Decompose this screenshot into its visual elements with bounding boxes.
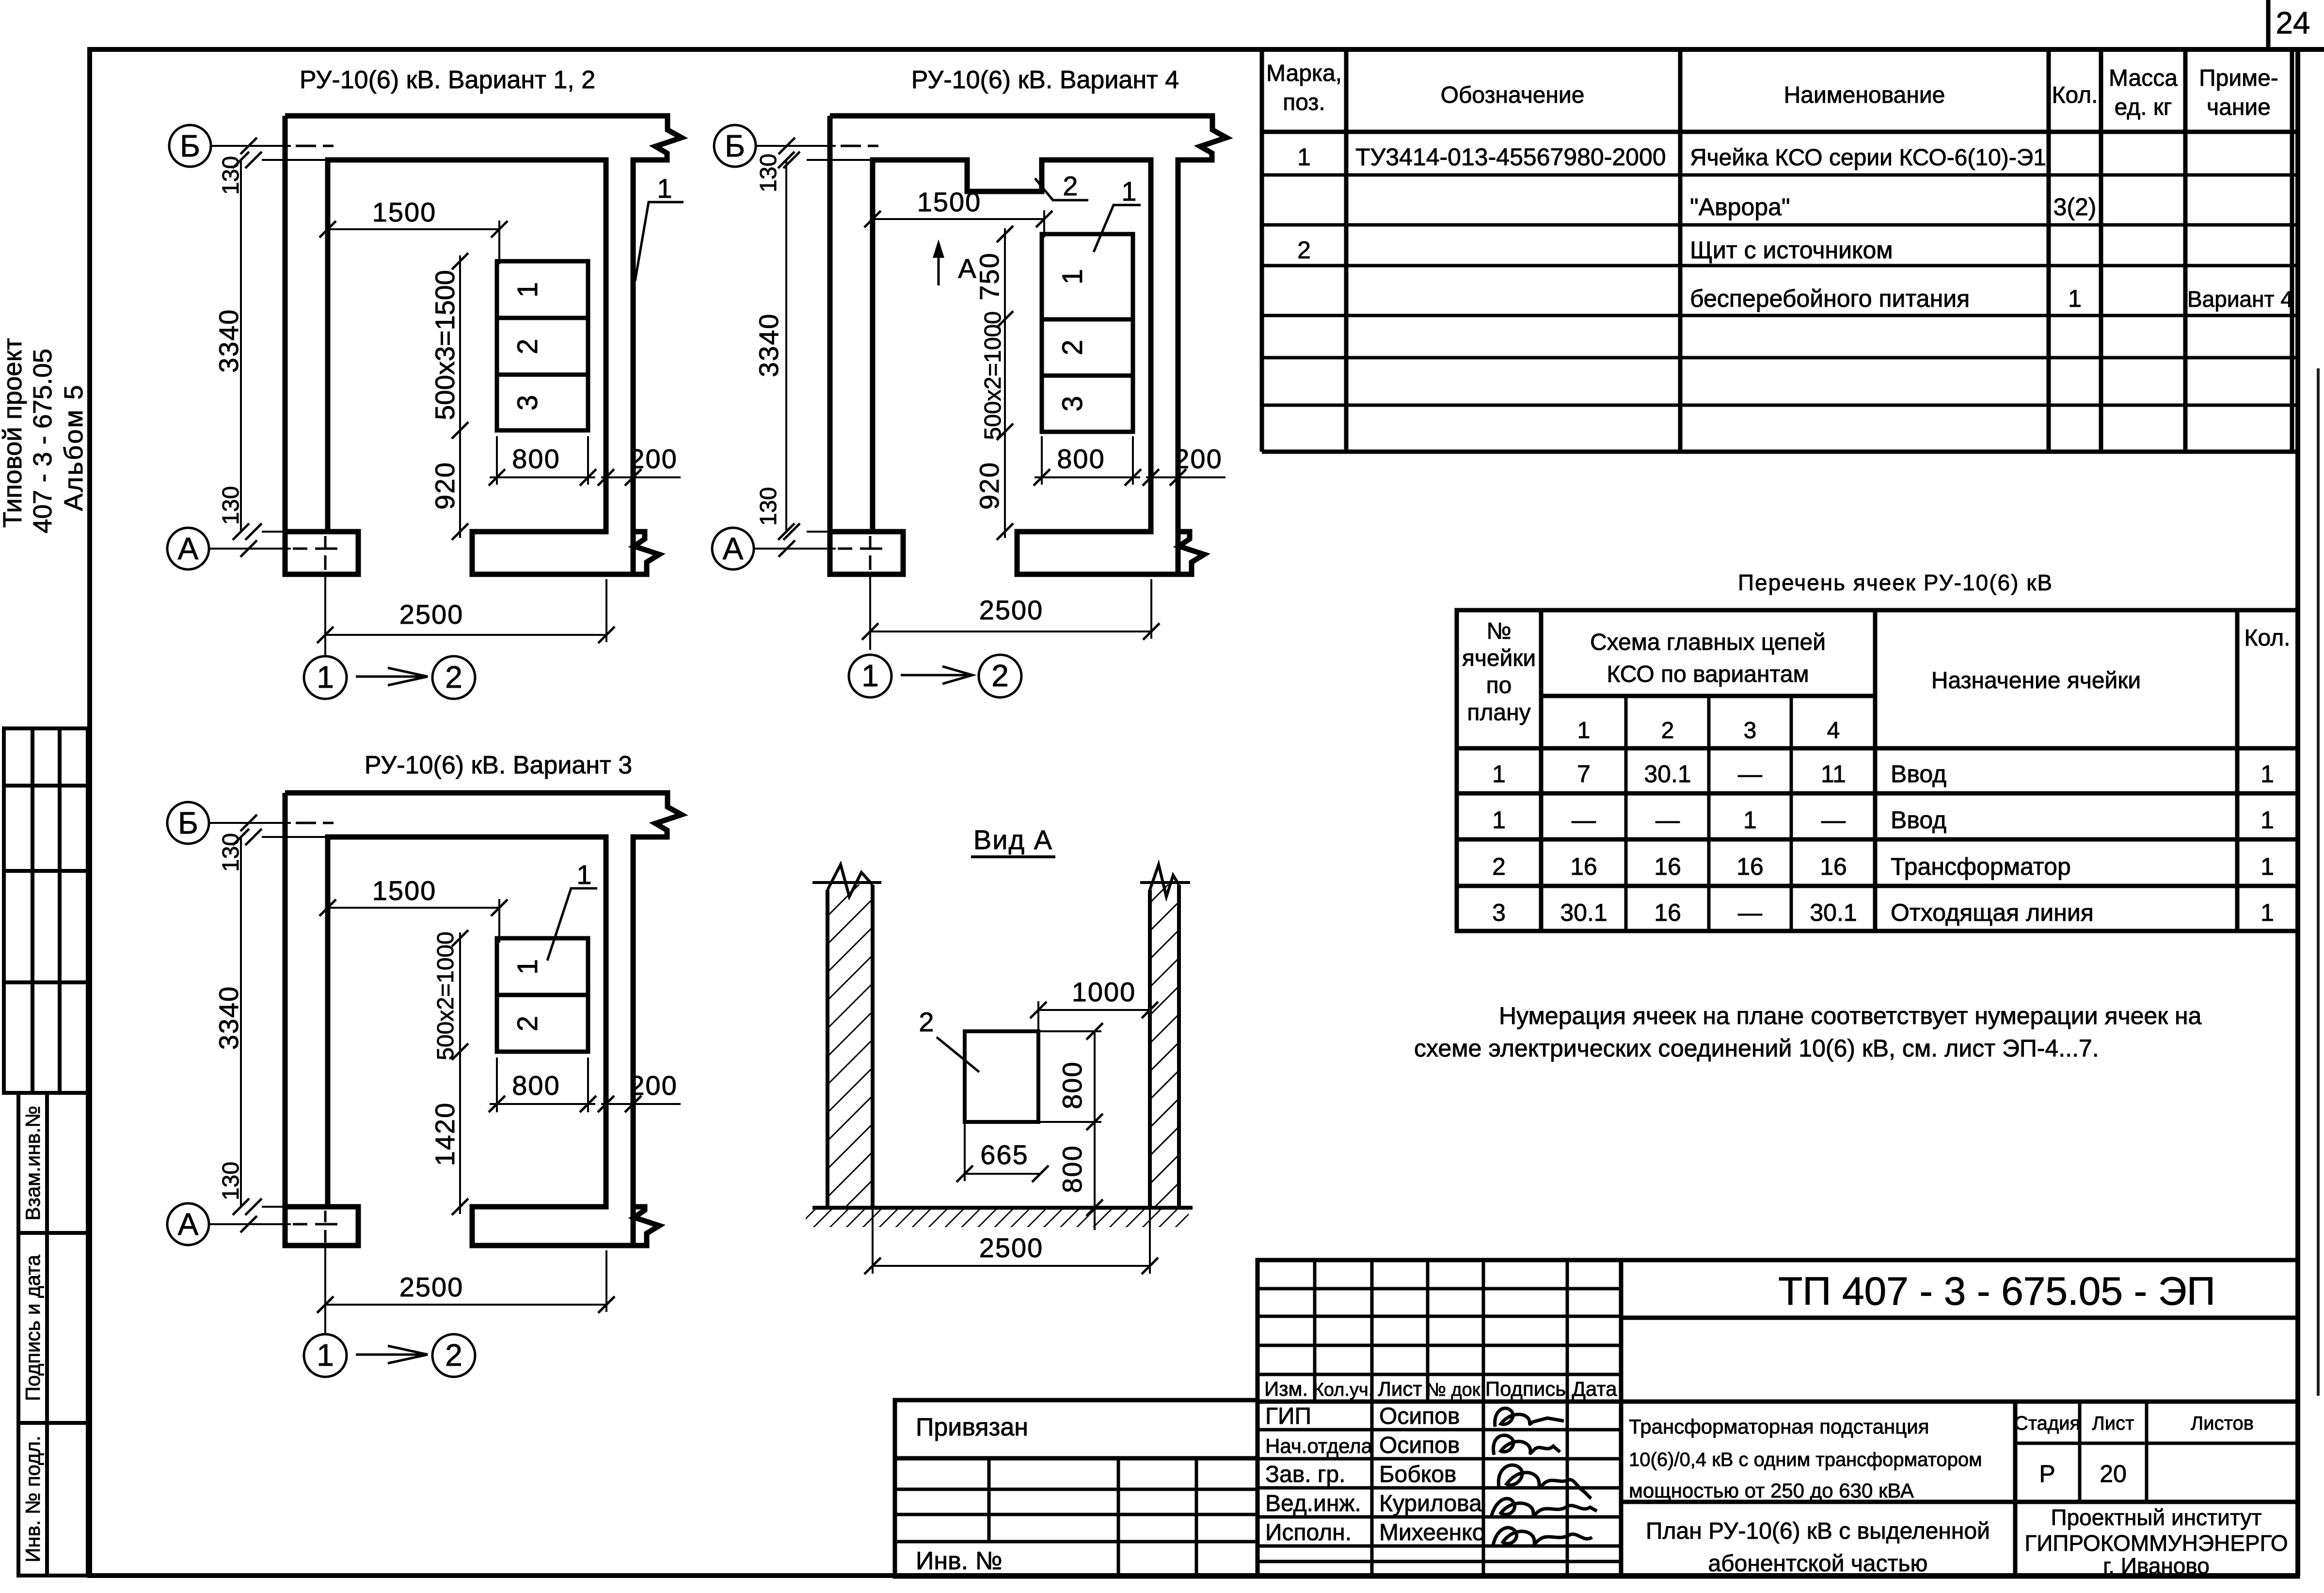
title block left grid lines bbox=[1258, 1260, 1621, 1577]
plan 3 dim 800 bbox=[490, 1103, 595, 1105]
svg-text:1: 1 bbox=[1297, 143, 1311, 171]
svg-text:Зав. гр.: Зав. гр. bbox=[1265, 1462, 1345, 1487]
svg-text:3340: 3340 bbox=[213, 986, 244, 1050]
svg-text:16: 16 bbox=[1570, 853, 1597, 880]
plan 3 axis circle А bbox=[167, 1203, 209, 1245]
svg-text:Отходящая линия: Отходящая линия bbox=[1891, 899, 2094, 926]
svg-text:РУ-10(6) кВ. Вариант 3: РУ-10(6) кВ. Вариант 3 bbox=[365, 751, 632, 779]
svg-text:130: 130 bbox=[756, 154, 781, 192]
plan 4 view mark circle 1 bbox=[849, 655, 891, 697]
svg-text:2: 2 bbox=[445, 1338, 462, 1372]
svg-text:1500: 1500 bbox=[372, 875, 437, 906]
plan 4 dim 750 bbox=[1004, 228, 1006, 439]
view A right wall column outline bbox=[1148, 890, 1152, 1208]
svg-text:А: А bbox=[178, 531, 199, 566]
svg-text:7: 7 bbox=[1577, 760, 1591, 788]
plan 1 dim 920 bbox=[459, 436, 461, 538]
svg-text:2500: 2500 bbox=[979, 595, 1044, 625]
svg-text:Подпись и дата: Подпись и дата bbox=[21, 1254, 44, 1401]
svg-text:РУ-10(6) кВ. Вариант 4: РУ-10(6) кВ. Вариант 4 bbox=[911, 66, 1179, 94]
view A ground line bbox=[812, 1206, 1193, 1210]
svg-text:130: 130 bbox=[218, 486, 244, 525]
svg-text:4: 4 bbox=[1827, 718, 1840, 743]
view A leader 2 bbox=[937, 1037, 979, 1072]
svg-text:200: 200 bbox=[629, 443, 677, 474]
svg-text:Курилова: Курилова bbox=[1379, 1491, 1482, 1516]
plan 1 axis dashes in pier bbox=[293, 536, 337, 570]
view A right wall column hatch bbox=[1152, 884, 1177, 1206]
plan 3 dim 2500 bbox=[325, 1304, 606, 1306]
plan 3 axis line А bbox=[209, 1223, 291, 1225]
svg-text:Вид А: Вид А bbox=[973, 824, 1053, 855]
plan 1 view mark circle 2 bbox=[432, 656, 475, 699]
frame right line bbox=[2295, 49, 2300, 1576]
svg-text:А: А bbox=[723, 531, 744, 566]
svg-text:3340: 3340 bbox=[213, 309, 244, 373]
plan 4 axis line Б bbox=[756, 145, 836, 147]
svg-text:3: 3 bbox=[512, 395, 543, 410]
svg-text:2: 2 bbox=[512, 1016, 543, 1031]
svg-text:2500: 2500 bbox=[979, 1232, 1044, 1263]
svg-text:200: 200 bbox=[629, 1070, 677, 1101]
svg-text:ТУ3414-013-45567980-2000: ТУ3414-013-45567980-2000 bbox=[1355, 143, 1666, 171]
binding block border bbox=[895, 1400, 1258, 1577]
cells list table grid bbox=[1457, 610, 2298, 931]
svg-text:Вед.инж.: Вед.инж. bbox=[1265, 1491, 1361, 1516]
plan 4 axis circle Б bbox=[714, 125, 756, 167]
plan 1 dim 3340 bbox=[240, 160, 242, 532]
svg-text:1: 1 bbox=[657, 173, 673, 204]
plan 3 walls bbox=[285, 793, 682, 1246]
svg-text:2500: 2500 bbox=[399, 599, 464, 630]
svg-text:поз.: поз. bbox=[1283, 90, 1325, 115]
frame left line bbox=[87, 47, 92, 1577]
view A left wall column outline bbox=[826, 890, 829, 1208]
svg-text:500х3=1500: 500х3=1500 bbox=[430, 270, 460, 420]
svg-text:Осипов: Осипов bbox=[1379, 1433, 1460, 1458]
svg-text:Типовой проект: Типовой проект bbox=[0, 338, 27, 528]
plan 1 walls bbox=[285, 116, 682, 574]
svg-text:24: 24 bbox=[2276, 5, 2310, 40]
view A section bbox=[806, 824, 1193, 1274]
svg-text:130: 130 bbox=[756, 487, 781, 526]
svg-text:Дата: Дата bbox=[1572, 1377, 1617, 1400]
binding block grid bbox=[895, 1458, 1258, 1577]
plan 4 walls bbox=[830, 116, 1226, 574]
svg-text:10(6)/0,4 кВ с одним трансформ: 10(6)/0,4 кВ с одним трансформатором bbox=[1629, 1449, 1982, 1470]
svg-text:1: 1 bbox=[2260, 760, 2274, 788]
svg-text:—: — bbox=[1821, 806, 1846, 834]
svg-text:мощностью от 250 до 630 кВА: мощностью от 250 до 630 кВА bbox=[1629, 1479, 1914, 1502]
svg-text:407 - 3 - 675.05: 407 - 3 - 675.05 bbox=[28, 348, 57, 533]
view A dim 2500 bbox=[873, 1265, 1150, 1267]
svg-text:1: 1 bbox=[512, 959, 543, 975]
svg-text:2: 2 bbox=[991, 658, 1009, 693]
svg-text:1000: 1000 bbox=[1072, 977, 1136, 1007]
plan 1 axis dashes in top wall bbox=[296, 145, 334, 147]
svg-text:Схема главных цепей: Схема главных цепей bbox=[1590, 630, 1826, 655]
svg-text:800: 800 bbox=[1057, 1061, 1087, 1109]
svg-text:ед. кг: ед. кг bbox=[2115, 95, 2172, 120]
svg-text:2: 2 bbox=[1297, 237, 1311, 264]
svg-text:1: 1 bbox=[1577, 718, 1591, 743]
plan 3 view direction arrow bbox=[356, 1354, 425, 1356]
svg-text:№ док.: № док. bbox=[1426, 1380, 1485, 1400]
signature Вед.инж. bbox=[1491, 1498, 1597, 1517]
svg-text:Кол.: Кол. bbox=[2052, 82, 2098, 108]
plan 1 tick slashes near Б bbox=[240, 138, 257, 154]
svg-text:1420: 1420 bbox=[430, 1102, 460, 1167]
svg-text:Б: Б bbox=[725, 128, 745, 163]
svg-text:30.1: 30.1 bbox=[1810, 899, 1857, 926]
plan 4 dim 1500 bbox=[873, 218, 1044, 220]
svg-text:Нумерация ячеек на плане соотв: Нумерация ячеек на плане соответствует н… bbox=[1499, 1002, 2202, 1029]
plan 4 dim 920 bbox=[1004, 439, 1006, 538]
svg-text:Лист: Лист bbox=[1378, 1377, 1422, 1400]
svg-text:Трансформаторная подстанция: Трансформаторная подстанция bbox=[1629, 1415, 1929, 1438]
svg-text:Инв. №: Инв. № bbox=[916, 1547, 1002, 1575]
svg-text:1: 1 bbox=[317, 660, 334, 694]
svg-text:665: 665 bbox=[980, 1139, 1028, 1170]
svg-text:2: 2 bbox=[1063, 171, 1079, 201]
svg-text:Альбом 5: Альбом 5 bbox=[59, 384, 88, 511]
svg-text:1: 1 bbox=[1492, 760, 1506, 788]
svg-text:Исполн.: Исполн. bbox=[1265, 1520, 1352, 1546]
left margin box Взам.инв.№ bbox=[18, 1093, 88, 1233]
svg-text:чание: чание bbox=[2207, 95, 2271, 120]
svg-text:КСО по вариантам: КСО по вариантам bbox=[1607, 662, 1809, 687]
plan 4 dim 500x2=1000 bbox=[997, 424, 1013, 440]
svg-text:1: 1 bbox=[2260, 853, 2274, 880]
svg-text:Обозначение: Обозначение bbox=[1441, 82, 1585, 108]
title block outer border bbox=[1258, 1260, 2298, 1577]
svg-text:1: 1 bbox=[1492, 806, 1506, 834]
plan 4 dim 2500 bbox=[870, 631, 1151, 632]
svg-text:1: 1 bbox=[317, 1338, 334, 1372]
plan 1 axis circle А bbox=[167, 528, 209, 569]
plan 1 view direction arrow bbox=[356, 676, 425, 678]
signature Зав. гр. bbox=[1498, 1465, 1591, 1498]
svg-text:Михеенко: Михеенко bbox=[1379, 1520, 1485, 1546]
svg-text:16: 16 bbox=[1654, 899, 1681, 926]
svg-text:Подпись: Подпись bbox=[1485, 1377, 1566, 1400]
svg-text:1: 1 bbox=[861, 658, 879, 693]
svg-text:920: 920 bbox=[974, 461, 1004, 509]
svg-text:Ввод: Ввод bbox=[1891, 806, 1946, 834]
svg-text:800: 800 bbox=[1057, 1145, 1087, 1193]
svg-text:30.1: 30.1 bbox=[1560, 899, 1607, 926]
svg-text:ТП 407 - 3 - 675.05 - ЭП: ТП 407 - 3 - 675.05 - ЭП bbox=[1778, 1269, 2215, 1313]
svg-text:800: 800 bbox=[512, 1070, 560, 1101]
svg-text:—: — bbox=[1655, 806, 1680, 834]
svg-text:1: 1 bbox=[1743, 806, 1757, 834]
plan 1 wall face extension near А bbox=[262, 531, 286, 533]
svg-text:16: 16 bbox=[1820, 853, 1847, 880]
svg-text:ГИП: ГИП bbox=[1265, 1404, 1311, 1429]
frame top line bbox=[89, 47, 2324, 52]
left margin approval grid bbox=[4, 728, 88, 1093]
svg-text:2500: 2500 bbox=[399, 1272, 464, 1302]
svg-text:800: 800 bbox=[1057, 443, 1105, 474]
svg-text:2: 2 bbox=[445, 660, 462, 694]
svg-text:3(2): 3(2) bbox=[2053, 193, 2097, 221]
plan 3 axis dashes in pier bbox=[293, 1211, 337, 1243]
svg-text:Проектный институт: Проектный институт bbox=[2051, 1505, 2262, 1530]
plan 1 cells cabinet item 1 bbox=[497, 261, 588, 430]
signature ГИП bbox=[1495, 1408, 1564, 1427]
plan 1 view mark circle 1 bbox=[304, 656, 347, 699]
svg-text:11: 11 bbox=[1821, 760, 1846, 788]
svg-text:3: 3 bbox=[1744, 718, 1757, 743]
view A left wall column hatch bbox=[829, 884, 871, 1206]
svg-text:1: 1 bbox=[2260, 806, 2274, 834]
plan 4 view direction arrow bbox=[901, 674, 971, 677]
plan 3 wall face extension near А bbox=[262, 1206, 286, 1208]
svg-text:А: А bbox=[178, 1207, 199, 1242]
svg-text:1500: 1500 bbox=[917, 187, 982, 217]
plan 3 tick slashes near А bbox=[240, 1216, 257, 1232]
svg-text:Щит с источником: Щит с источником bbox=[1690, 237, 1893, 264]
spec table grid bbox=[1262, 49, 2298, 452]
svg-text:30.1: 30.1 bbox=[1644, 760, 1691, 788]
cells list table bbox=[1457, 570, 2298, 931]
view A right column top break bbox=[1150, 865, 1179, 897]
svg-text:1500: 1500 bbox=[372, 197, 437, 227]
plan 3 axis dashes in top wall bbox=[296, 822, 334, 824]
plan 3 dim 500x2=1000 bbox=[459, 932, 461, 1057]
svg-text:20: 20 bbox=[2100, 1460, 2127, 1487]
plan 4 position leader 1 bbox=[1094, 205, 1141, 252]
plan 4 cells cabinet item 1 bbox=[1042, 234, 1133, 432]
plan 3 dim 3340 bbox=[240, 837, 242, 1207]
view A title underline bbox=[971, 855, 1055, 858]
svg-text:2: 2 bbox=[1492, 853, 1506, 880]
svg-text:Трансформатор: Трансформатор bbox=[1891, 853, 2071, 880]
plan 3 position leader 1 bbox=[547, 888, 597, 961]
svg-text:абонентской частью: абонентской частью bbox=[1708, 1551, 1927, 1577]
plan 4 tick slashes near А bbox=[779, 540, 795, 557]
signature Исполн. bbox=[1493, 1528, 1592, 1545]
svg-text:500х2=1000: 500х2=1000 bbox=[980, 311, 1006, 440]
plan 4 ups panel leader 2 bbox=[1035, 178, 1088, 200]
sheet edge line right bbox=[2317, 368, 2320, 1396]
svg-text:Марка,: Марка, bbox=[1266, 61, 1342, 86]
plan 1 dim 200 bbox=[601, 476, 681, 478]
view A vertical dim chain 800/800 bbox=[1094, 1031, 1096, 1230]
svg-text:Ввод: Ввод bbox=[1891, 760, 1946, 788]
svg-text:Лист: Лист bbox=[2092, 1413, 2134, 1434]
plan 4 wall face extension near А bbox=[807, 531, 831, 533]
svg-text:500х2=1000: 500х2=1000 bbox=[433, 931, 459, 1060]
note paragraph bbox=[1414, 1002, 2202, 1062]
svg-text:—: — bbox=[1738, 899, 1762, 926]
plan 4 dim 800 bbox=[1035, 476, 1140, 478]
plan 1 axis line Б bbox=[211, 145, 291, 147]
plan 3 dim 1420 bbox=[459, 1057, 461, 1214]
svg-text:Перечень ячеек РУ-10(6) кВ: Перечень ячеек РУ-10(6) кВ bbox=[1738, 570, 2053, 595]
left margin box Подпись и дата bbox=[18, 1233, 88, 1423]
frame bottom line bbox=[87, 1573, 2298, 1578]
svg-text:плану: плану bbox=[1467, 700, 1530, 726]
svg-text:2: 2 bbox=[1661, 718, 1674, 743]
svg-text:3: 3 bbox=[1492, 899, 1506, 926]
svg-text:130: 130 bbox=[218, 1162, 244, 1200]
svg-text:Нач.отдела: Нач.отдела bbox=[1265, 1435, 1373, 1457]
plan 3 dim 1500 bbox=[328, 907, 499, 909]
svg-text:1: 1 bbox=[2260, 899, 2274, 926]
plan 4 axis dashes in top wall bbox=[841, 145, 878, 147]
svg-text:бесперебойного питания: бесперебойного питания bbox=[1690, 285, 1970, 312]
plan 3 view mark circle 1 bbox=[304, 1334, 347, 1377]
svg-text:схеме электрических соединений: схеме электрических соединений 10(6) кВ,… bbox=[1414, 1035, 2099, 1062]
plan 4 dim 200 bbox=[1146, 476, 1226, 478]
svg-text:Б: Б bbox=[178, 805, 198, 840]
svg-text:1: 1 bbox=[2068, 285, 2082, 312]
page number divider line bbox=[2266, 0, 2271, 50]
plan 1 position leader 1 bbox=[635, 202, 684, 281]
svg-text:Изм.: Изм. bbox=[1264, 1377, 1308, 1400]
specification table bbox=[1262, 49, 2298, 452]
svg-text:Б: Б bbox=[180, 128, 200, 163]
plan 4 axis dashes in pier bbox=[838, 536, 882, 570]
plan 4 axis line А bbox=[754, 548, 836, 550]
svg-text:Наименование: Наименование bbox=[1784, 82, 1945, 108]
vertical sheet title: Типовой проект 407-3-675.05 Альбом 5 bbox=[0, 338, 88, 533]
svg-text:2: 2 bbox=[919, 1007, 935, 1037]
stage grid bbox=[2015, 1402, 2298, 1502]
svg-text:200: 200 bbox=[1174, 443, 1222, 474]
svg-text:Кол.уч.: Кол.уч. bbox=[1313, 1380, 1374, 1400]
plan 1 tick slashes near А bbox=[240, 540, 257, 557]
view A dim 665 bbox=[965, 1173, 1040, 1175]
svg-text:920: 920 bbox=[430, 461, 460, 509]
svg-text:1: 1 bbox=[1121, 176, 1137, 206]
view A left column top tick bbox=[812, 881, 881, 884]
svg-text:Назначение ячейки: Назначение ячейки bbox=[1931, 668, 2141, 694]
plan 1 axis circle Б bbox=[169, 125, 211, 167]
svg-text:Стадия: Стадия bbox=[2014, 1413, 2080, 1434]
plan 3 cells cabinet item 1 bbox=[497, 938, 588, 1052]
svg-text:ГИПРОКОММУНЭНЕРГО: ГИПРОКОММУНЭНЕРГО bbox=[2024, 1530, 2288, 1556]
plan 3 dim 200 bbox=[601, 1103, 681, 1105]
view A dim 1000 bbox=[1038, 1009, 1150, 1011]
svg-text:800: 800 bbox=[512, 443, 560, 474]
svg-text:Взам.инв.№: Взам.инв.№ bbox=[21, 1106, 44, 1221]
plan 3 wall face extension near Б bbox=[262, 836, 328, 838]
svg-text:Масса: Масса bbox=[2109, 65, 2178, 91]
svg-text:Осипов: Осипов bbox=[1379, 1404, 1460, 1429]
plan variant 3 bbox=[167, 751, 682, 1377]
view A ground hatch bbox=[806, 1210, 1189, 1227]
svg-text:"Аврора": "Аврора" bbox=[1690, 193, 1790, 221]
plan 1 dim 500x3=1500 bbox=[459, 255, 461, 436]
title block bbox=[895, 1260, 2298, 1578]
svg-text:Ячейка КСО серии КСО-6(10)-Э1: Ячейка КСО серии КСО-6(10)-Э1 bbox=[1690, 145, 2046, 171]
plan 3 view mark circle 2 bbox=[432, 1334, 475, 1377]
svg-text:Р: Р bbox=[2039, 1460, 2055, 1487]
plan 4 view mark circle 2 bbox=[979, 655, 1021, 697]
svg-text:Листов: Листов bbox=[2191, 1413, 2254, 1434]
svg-text:г. Иваново: г. Иваново bbox=[2103, 1553, 2210, 1578]
svg-text:3340: 3340 bbox=[753, 313, 784, 378]
svg-text:РУ-10(6) кВ. Вариант 1, 2: РУ-10(6) кВ. Вариант 1, 2 bbox=[300, 66, 595, 94]
svg-text:Бобков: Бобков bbox=[1379, 1462, 1456, 1487]
view A ups panel item 2 bbox=[965, 1031, 1038, 1122]
plan 1 dim 2500 bbox=[325, 634, 606, 636]
svg-text:Инв. № подл.: Инв. № подл. bbox=[21, 1435, 44, 1562]
view A right column top tick bbox=[1140, 881, 1190, 884]
plan 1 dim 1500 bbox=[328, 228, 499, 230]
signature Нач.отдела bbox=[1494, 1435, 1560, 1455]
plan 3 axis circle Б bbox=[167, 802, 209, 844]
svg-text:ячейки: ячейки bbox=[1462, 646, 1536, 671]
view A left column top break bbox=[828, 865, 873, 897]
plan 4 tick slashes near Б bbox=[779, 138, 795, 154]
svg-text:1: 1 bbox=[576, 859, 592, 890]
plan 4 view A arrow bbox=[938, 246, 940, 285]
svg-text:План РУ-10(6) кВ с выделенной: План РУ-10(6) кВ с выделенной bbox=[1646, 1518, 1990, 1544]
plan 1 wall face extension near Б bbox=[262, 159, 328, 161]
svg-text:№: № bbox=[1486, 618, 1512, 644]
plan 1 dim 800 bbox=[490, 476, 595, 478]
plan 3 tick slashes near Б bbox=[240, 815, 257, 831]
svg-text:2: 2 bbox=[1057, 340, 1088, 355]
svg-text:1: 1 bbox=[1057, 269, 1088, 284]
svg-text:750: 750 bbox=[974, 252, 1004, 300]
left margin box Инв. № подл. bbox=[18, 1423, 88, 1576]
svg-text:16: 16 bbox=[1736, 853, 1764, 880]
svg-text:Кол.: Кол. bbox=[2244, 625, 2291, 651]
svg-text:Вариант 4: Вариант 4 bbox=[2187, 286, 2293, 312]
svg-text:—: — bbox=[1572, 806, 1596, 834]
plan 4 axis circle А bbox=[712, 528, 754, 569]
svg-text:2: 2 bbox=[512, 339, 543, 354]
plan 3 axis line Б bbox=[209, 822, 291, 824]
svg-text:16: 16 bbox=[1654, 853, 1681, 880]
svg-text:—: — bbox=[1738, 760, 1762, 788]
svg-text:Привязан: Привязан bbox=[916, 1413, 1028, 1441]
svg-text:1: 1 bbox=[512, 282, 543, 298]
svg-text:3: 3 bbox=[1057, 396, 1088, 411]
plan variant 1,2 bbox=[167, 66, 684, 699]
plan variant 4 bbox=[712, 66, 1226, 697]
plan 4 dim 3340 bbox=[785, 160, 787, 532]
svg-text:Приме-: Приме- bbox=[2199, 65, 2278, 91]
svg-text:по: по bbox=[1486, 673, 1512, 698]
plan 4 wall face extension near Б bbox=[807, 159, 873, 161]
plan 1 axis line А bbox=[209, 548, 291, 550]
